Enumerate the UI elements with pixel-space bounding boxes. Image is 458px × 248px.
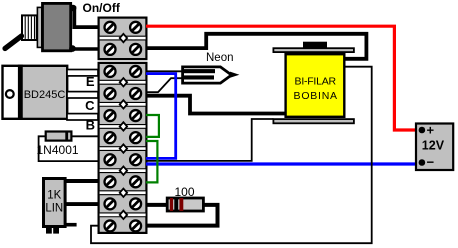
potentiometer R2 1K LIN bbox=[44, 179, 77, 234]
transistor lead C bbox=[67, 92, 98, 98]
terminal strip block TB1 rows 1-2 bbox=[99, 18, 147, 60]
resistor R1 100 ohm bbox=[167, 198, 203, 211]
svg-text:12V: 12V bbox=[422, 138, 445, 152]
svg-text:−: − bbox=[427, 155, 435, 170]
wire strip row 4 to coil primary bottom bbox=[146, 96, 286, 114]
wire neon lead 1 to strip row 3 bbox=[146, 70, 183, 72]
transistor lead B bbox=[67, 114, 98, 120]
wire neon lead 2 to strip row 4 bbox=[146, 78, 183, 92]
wire resistor left lead to strip row 9 bbox=[146, 203, 167, 207]
svg-text:BI-FILAR: BI-FILAR bbox=[295, 75, 337, 87]
svg-text:+: + bbox=[427, 122, 435, 137]
wire switch terminal 2 to strip row 2 bbox=[71, 47, 99, 51]
neon lamp NE1 bbox=[182, 67, 240, 83]
wire blue strip row 3 to strip row 7 bbox=[146, 74, 176, 159]
svg-text:LIN: LIN bbox=[45, 203, 63, 215]
wire green strip row 6 to strip row 8 bbox=[146, 141, 157, 182]
battery BT1 12V bbox=[416, 122, 453, 170]
transistor lead E bbox=[67, 70, 98, 76]
switch S1 On/Off toggle bbox=[5, 3, 76, 51]
svg-text:1K: 1K bbox=[47, 190, 61, 202]
wire resistor right lead to strip row 10 bbox=[146, 205, 218, 226]
svg-text:Neon: Neon bbox=[206, 52, 234, 64]
wire potentiometer terminal 2 to strip row 9 bbox=[65, 202, 99, 206]
wire red strip row 1 to battery positive bbox=[146, 26, 420, 130]
svg-text:100: 100 bbox=[175, 185, 195, 199]
diode D1 body bbox=[46, 131, 72, 142]
svg-text:BD245C: BD245C bbox=[24, 89, 66, 101]
wire diode anode to strip row 7 bbox=[39, 136, 99, 161]
svg-text:1N4001: 1N4001 bbox=[37, 143, 79, 157]
svg-text:B: B bbox=[86, 117, 95, 132]
coil L1 bifilar bobbin bbox=[273, 42, 354, 124]
svg-text:C: C bbox=[85, 98, 95, 113]
wire strip row 2 to coil primary top bbox=[146, 34, 366, 59]
wire switch terminal 1 to strip row 1 bbox=[72, 8, 99, 27]
label BI-FILAR BOBINA bbox=[294, 75, 338, 102]
wire strip row 7 to coil bottom flange bbox=[146, 119, 274, 161]
wire diode cathode to strip row 6 bbox=[72, 135, 99, 137]
transistor Q1 BD245C package bbox=[3, 65, 68, 120]
wire blue strip row 7 to battery negative bbox=[146, 162, 420, 165]
svg-text:BOBINA: BOBINA bbox=[294, 90, 338, 102]
svg-text:On/Off: On/Off bbox=[83, 1, 121, 15]
wire green strip row 5 to strip row 6 bbox=[146, 115, 159, 137]
wire coil secondary to strip row 10 via bottom bbox=[91, 67, 372, 244]
svg-text:E: E bbox=[86, 74, 95, 89]
terminal strip block TB2 rows 3-10 bbox=[99, 63, 147, 233]
wire potentiometer terminal 1 to strip row 8 bbox=[65, 179, 99, 183]
